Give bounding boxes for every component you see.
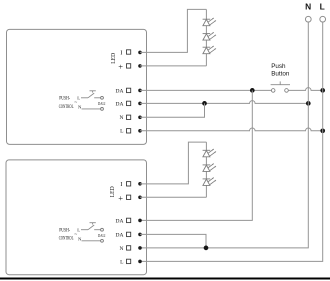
svg-text:Push: Push — [271, 63, 286, 70]
node junction DA1/drop — [250, 88, 255, 93]
terminal dot U1-N — [138, 116, 142, 120]
LED D4 — [203, 149, 216, 157]
terminal square U2-L — [127, 259, 131, 263]
LED D2 — [203, 32, 216, 40]
terminal square U1-I — [127, 50, 131, 54]
LED D6 — [203, 178, 216, 186]
node junction DA2/N riser — [202, 101, 207, 106]
wire U1 N riser to DA2 — [140, 103, 205, 117]
svg-text:PUSH-: PUSH- — [59, 96, 70, 101]
terminal dot U2-+ — [138, 196, 142, 200]
terminal square U2-DA1 — [127, 218, 131, 222]
terminal dot U1-+ — [138, 64, 142, 68]
wire U1 L to L bus (hops over drop wire and N bus) — [140, 128, 323, 131]
push-control switch S1 inside U1 — [81, 91, 103, 111]
svg-text:~: ~ — [74, 100, 77, 106]
wire L bus down to U2 L — [140, 22, 323, 262]
svg-text:CONTROL: CONTROL — [59, 237, 74, 242]
terminal square U1-+ — [127, 64, 131, 68]
terminal square U2-+ — [127, 195, 131, 199]
svg-text:L: L — [77, 227, 80, 232]
wire drop DA1 bus to U2 DA1 — [140, 90, 252, 220]
svg-text:DA: DA — [116, 88, 124, 94]
svg-text:N: N — [120, 246, 124, 252]
LED D1 — [203, 18, 216, 26]
svg-text:N: N — [305, 2, 311, 12]
svg-text:PUSH-: PUSH- — [59, 228, 70, 233]
wire LED chain 1 spine — [205, 9, 207, 66]
terminal dot U2-I — [138, 182, 142, 186]
push button S3 — [271, 81, 290, 92]
terminal square U2-DA2 — [127, 232, 131, 236]
svg-text:CONTROL: CONTROL — [59, 105, 74, 110]
svg-text:N: N — [120, 115, 124, 121]
driver box U1 — [7, 29, 147, 144]
wire push button to L bus (hops over N bus) — [288, 88, 322, 91]
svg-text:Button: Button — [271, 70, 290, 77]
wire LED chain 1 bottom to U1 + — [140, 65, 206, 67]
terminal circle L supply — [320, 16, 326, 22]
terminal dot U1-L — [138, 129, 142, 133]
terminal square U2-I — [127, 182, 131, 186]
wire LED chain 2 bottom to U2 + — [140, 196, 206, 198]
svg-text:DALI: DALI — [98, 101, 106, 106]
wire U1 DA2 to N bus (hops over drop wire) — [140, 101, 308, 104]
wire U2 I to LED chain 2 top — [140, 142, 206, 184]
node push button to L bus — [320, 88, 325, 93]
svg-text:L: L — [320, 2, 325, 12]
terminal square U1-L — [127, 129, 131, 133]
terminal dot U1-DA2 — [138, 102, 142, 106]
node U2 DA2 to N row — [204, 246, 209, 251]
push-control switch S2 inside U2 — [81, 223, 103, 243]
node DA2 to N bus — [306, 101, 311, 106]
driver box U2 — [6, 160, 147, 275]
wire LED chain 2 spine — [205, 142, 207, 197]
svg-text:DA: DA — [116, 101, 124, 107]
svg-text:~: ~ — [74, 232, 77, 238]
terminal dot U1-I — [138, 51, 142, 55]
terminal square U1-DA1 — [127, 88, 131, 92]
svg-text:LED: LED — [109, 186, 116, 197]
node U1 L to L bus — [320, 128, 325, 133]
svg-text:L: L — [77, 96, 80, 101]
wire U2 DA2 drop to N row — [140, 234, 206, 248]
LED D5 — [203, 164, 216, 172]
svg-text:LED: LED — [110, 52, 117, 63]
svg-text:+: + — [118, 62, 123, 72]
svg-text:+: + — [118, 193, 123, 203]
svg-text:DALI: DALI — [98, 233, 106, 238]
svg-text:I: I — [120, 181, 122, 188]
terminal dot U2-N — [138, 246, 142, 250]
svg-text:DA: DA — [116, 232, 124, 238]
svg-text:I: I — [120, 49, 122, 56]
terminal square U2-N — [127, 246, 131, 250]
chassis baseline — [0, 278, 330, 280]
wire N bus down to U2 N — [140, 22, 308, 248]
terminal circle N supply — [305, 16, 311, 22]
terminal dot U1-DA1 — [138, 89, 142, 93]
svg-text:DA: DA — [116, 218, 124, 224]
LED D3 — [203, 46, 216, 54]
wire U1 I to LED chain 1 top — [140, 9, 206, 52]
terminal square U1-DA2 — [127, 101, 131, 105]
terminal dot U2-DA1 — [138, 219, 142, 223]
terminal square U1-N — [127, 115, 131, 119]
terminal dot U2-DA2 — [138, 233, 142, 237]
terminal dot U2-L — [138, 260, 142, 264]
wire U1 DA1 to push button — [140, 89, 272, 91]
